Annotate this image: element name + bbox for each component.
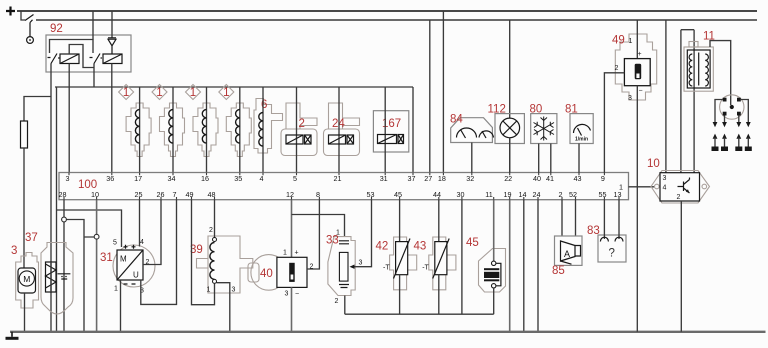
ground symbol [11, 332, 13, 337]
solenoid valve 24 [324, 87, 360, 173]
zener diode [108, 38, 116, 54]
svg-text:3: 3 [285, 291, 289, 298]
junction connector on pin 10 wire [94, 234, 99, 239]
wire HT lead 2 [724, 116, 726, 124]
svg-text:1: 1 [629, 38, 633, 45]
ECU pin numbers bottom row [59, 190, 622, 199]
junction connector on pin 28 wire [62, 217, 67, 222]
wire pump to ground [24, 293, 26, 332]
wire 31 pin 1 to ground [120, 280, 122, 332]
svg-text:43: 43 [574, 174, 582, 183]
svg-text:-T: -T [383, 265, 390, 272]
wire ignition line to power module [665, 20, 667, 173]
wire ECU pin 28 to ground [63, 200, 65, 332]
svg-text:28: 28 [59, 190, 67, 199]
wire injector rail [55, 86, 413, 88]
wire 31 pin 3 to ECU pin 7 [141, 200, 177, 305]
svg-text:2: 2 [209, 227, 213, 234]
svg-text:41: 41 [546, 174, 554, 183]
relay 92a coil [60, 54, 79, 64]
wire 40 pin 2 to ECU pin 8 [307, 200, 319, 269]
svg-text:2: 2 [299, 118, 305, 130]
svg-text:24: 24 [533, 190, 541, 199]
wire ignition line to 49 pin 1 [636, 20, 638, 59]
svg-text:31: 31 [100, 252, 113, 264]
wire battery bus +30 [17, 10, 757, 12]
wire 39 pin 3 to ground [217, 283, 230, 332]
wire ECU pin 30 to sensor common [461, 200, 463, 315]
wire coil primary loop [681, 30, 694, 173]
svg-text:1: 1 [156, 87, 162, 99]
wire battery line to ECU pin 18 [442, 11, 444, 173]
absolute pressure sensor 33 [326, 200, 372, 315]
svg-text:36: 36 [106, 174, 114, 183]
wire ECU pin 24 to ground [537, 200, 539, 332]
svg-text:112: 112 [488, 104, 506, 116]
wire ECU pin 52 to 85 [575, 200, 577, 236]
relay 92b coil [103, 54, 122, 64]
fuse F1 [21, 121, 28, 148]
engine speed sensor 40 [248, 200, 345, 332]
svg-text:37: 37 [25, 232, 38, 244]
wire junction link 28-10 [66, 220, 94, 333]
svg-text:+: + [638, 51, 642, 58]
svg-text:M: M [23, 274, 30, 284]
svg-text:18: 18 [438, 174, 446, 183]
svg-text:45: 45 [466, 237, 479, 249]
wire sensor common rail [345, 313, 494, 315]
svg-text:1: 1 [223, 87, 229, 99]
svg-text:+: + [295, 250, 299, 257]
wire HT lead 4 [741, 100, 749, 124]
wire ignition line to ECU pin 27 [429, 20, 431, 173]
svg-text:30: 30 [457, 190, 465, 199]
svg-text:21: 21 [334, 174, 342, 183]
svg-text:7: 7 [173, 190, 177, 199]
svg-text:83: 83 [587, 225, 600, 237]
wire ECU pin 12 to 40 pin 1 [291, 200, 293, 258]
svg-text:10: 10 [647, 158, 660, 170]
svg-text:42: 42 [376, 241, 389, 253]
svg-text:92: 92 [50, 23, 63, 35]
svg-text:49: 49 [186, 190, 194, 199]
wire ECU pin 48 to 39 pin 2 [214, 200, 216, 238]
wire 49 pin 2 to ECU pin 9 [604, 73, 624, 173]
svg-text:−: − [295, 291, 299, 298]
wire HT lead 3 [738, 116, 740, 124]
svg-text:27: 27 [424, 174, 432, 183]
svg-text:49: 49 [612, 35, 625, 47]
svg-text:A: A [564, 249, 570, 259]
svg-text:−: − [639, 88, 643, 95]
wire feed to relay contacts [92, 11, 94, 40]
svg-text:2: 2 [677, 194, 681, 201]
svg-text:2: 2 [335, 298, 339, 305]
instrument cluster 84 [450, 114, 494, 173]
wire ECU pin 14 to ground [523, 200, 525, 332]
coolant temperature sensor 42 [376, 200, 417, 315]
svg-text:25: 25 [135, 190, 143, 199]
svg-text:9: 9 [601, 174, 605, 183]
wire ECU pin 11 to 45 [493, 200, 495, 263]
wire relay coil a to ECU pin 3 [68, 64, 70, 173]
ignition power module 10 [647, 158, 710, 332]
battery plus terminal [6, 7, 15, 16]
diagnostic warning module 85 [552, 200, 582, 277]
wire ECU pin 44 to 43 [438, 200, 440, 242]
relay 92a contact [48, 54, 60, 64]
knock sensor 45 [466, 200, 506, 315]
throttle potentiometer 31 [100, 200, 177, 332]
svg-text:40: 40 [533, 174, 541, 183]
wire 31 pin 2 to ECU pin 26 [143, 200, 161, 265]
wire ECU pin 45 to 42 [399, 200, 401, 242]
relay box 92 [46, 35, 131, 72]
svg-text:M: M [120, 255, 127, 264]
wire pump branch [24, 97, 51, 122]
svg-text:1: 1 [336, 230, 340, 237]
svg-text:4: 4 [260, 174, 264, 183]
svg-text:45: 45 [394, 190, 402, 199]
wire coil secondary to distributor [710, 41, 731, 105]
svg-text:17: 17 [134, 174, 142, 183]
air conditioning switch 80 [530, 104, 557, 173]
wire ECU pin 25 to 31 pin 4 [139, 200, 141, 247]
injector 1c [186, 85, 219, 173]
wire ECU pin 10 to ground [96, 200, 98, 332]
wire 42 to sensor common [399, 275, 401, 315]
svg-text:3: 3 [663, 175, 667, 182]
wire diode feed [111, 11, 113, 38]
wire ECU pin 19 to ground [509, 200, 511, 332]
spark plugs [712, 134, 752, 151]
wire HT lead 1 [715, 100, 723, 124]
svg-text:85: 85 [552, 265, 565, 277]
svg-text:3: 3 [232, 287, 236, 294]
svg-text:37: 37 [408, 174, 416, 183]
ignition coil ballast 6 [254, 87, 283, 173]
svg-text:1: 1 [123, 87, 129, 99]
wire relay b output to injector rail [93, 64, 95, 88]
wire ECU pin 1 to power module [629, 186, 655, 188]
svg-text:4: 4 [140, 239, 144, 246]
relay 92b contact [90, 54, 103, 64]
svg-text:34: 34 [168, 174, 176, 183]
wire ignition switched line +15 [36, 19, 757, 21]
ground bus [10, 331, 766, 333]
wire ignition line through lamp to ECU pin 22 [509, 20, 511, 173]
svg-text:5: 5 [113, 240, 117, 247]
svg-text:14: 14 [519, 190, 527, 199]
wire 80 to ECU pin 40 [538, 144, 540, 173]
idle stepper 39 [190, 200, 253, 332]
rev counter 81 [565, 104, 593, 173]
svg-text:35: 35 [234, 174, 242, 183]
svg-text:1: 1 [190, 87, 196, 99]
wire 80 to ECU pin 41 [550, 144, 552, 173]
wire 84 to ECU pin 32 [471, 143, 473, 173]
svg-text:84: 84 [450, 114, 463, 126]
svg-text:16: 16 [201, 174, 209, 183]
svg-text:11: 11 [485, 190, 492, 199]
air temperature sensor 43 [414, 200, 456, 315]
wire fuse to pump [23, 148, 25, 268]
solenoid valve 2 [281, 87, 317, 173]
wire ECU pin 53 to 33 pin 3 [354, 200, 372, 267]
svg-text:32: 32 [466, 174, 474, 183]
wire relay coil b to ECU pin 36 [111, 64, 113, 173]
svg-text:3: 3 [66, 174, 70, 183]
ignition switch lever [25, 15, 34, 21]
wire ECU pin 2 to 85 [561, 200, 563, 236]
wire ignition feed drop [21, 11, 25, 20]
svg-text:1: 1 [283, 250, 287, 257]
fuel pump 3 [11, 245, 39, 332]
svg-text:3: 3 [11, 245, 17, 257]
svg-text:40: 40 [260, 268, 273, 280]
svg-text:43: 43 [414, 241, 427, 253]
ECU pin ticks [64, 173, 619, 200]
ground marker in 37 [58, 274, 71, 279]
svg-text:U: U [133, 271, 139, 280]
injector 1a [119, 85, 152, 173]
svg-text:13: 13 [614, 190, 622, 199]
svg-text:55: 55 [599, 190, 607, 199]
wire supply branch to 33 pin 1 [292, 215, 345, 237]
wire 81 to ECU pin 43 [578, 144, 580, 173]
wire module 10 pin 2 to ground [680, 201, 682, 332]
wire rail end to ECU pin 37 [412, 87, 414, 173]
diagnostic connector 83 [587, 200, 626, 262]
wire ECU pin 55 to 83 [603, 200, 605, 239]
wire 43 to sensor common [438, 275, 440, 315]
svg-text:44: 44 [433, 190, 441, 199]
ignition key symbol [27, 20, 34, 44]
wire 33 pin 2 to sensor common [344, 296, 346, 315]
svg-text:6: 6 [261, 99, 267, 111]
wire ECU pin 13 to 83 [618, 200, 620, 239]
svg-text:1: 1 [207, 287, 211, 294]
svg-text:22: 22 [504, 174, 512, 183]
svg-text:2: 2 [615, 65, 619, 72]
svg-text:31: 31 [380, 174, 388, 183]
svg-text:19: 19 [504, 190, 512, 199]
transistor symbol [678, 178, 690, 194]
wire coil-a link [69, 45, 94, 68]
svg-text:81: 81 [565, 104, 578, 116]
svg-text:-T: -T [422, 265, 429, 272]
injector 1d [219, 85, 252, 173]
wire relay inner loop [50, 40, 94, 54]
svg-text:1: 1 [114, 286, 118, 293]
distributor [713, 95, 751, 127]
svg-text:3: 3 [628, 95, 632, 102]
svg-text:?: ? [609, 248, 615, 260]
svg-text:12: 12 [286, 190, 294, 199]
ECU control unit 100 [59, 173, 629, 200]
lambda probe heater 37 [25, 232, 73, 314]
solenoid valve 167 [373, 87, 408, 173]
wire branch to sensor supply [57, 210, 122, 247]
ignition coil 11 [684, 31, 715, 92]
ECU pin numbers top row [66, 174, 624, 192]
svg-text:1/min: 1/min [575, 137, 588, 143]
svg-text:4: 4 [663, 185, 667, 192]
svg-text:53: 53 [367, 190, 375, 199]
wire rail left branch down to ground [56, 87, 58, 332]
wire 39 pin 1 to ECU pin 49 [192, 200, 215, 305]
svg-text:3: 3 [359, 260, 363, 267]
injector 1b [152, 85, 185, 173]
wire 40 pin 3 to ground [291, 287, 293, 332]
wire relay a output [50, 64, 52, 97]
warning lamp 112 [488, 20, 525, 173]
svg-text:80: 80 [530, 104, 543, 116]
battery module 49 [604, 20, 656, 332]
wire 49 pin 3 to ground [636, 86, 638, 332]
svg-text:10: 10 [91, 190, 99, 199]
wire main relay output to heater ground [50, 97, 52, 333]
wire 45 to sensor common [493, 288, 495, 314]
svg-text:5: 5 [293, 174, 297, 183]
